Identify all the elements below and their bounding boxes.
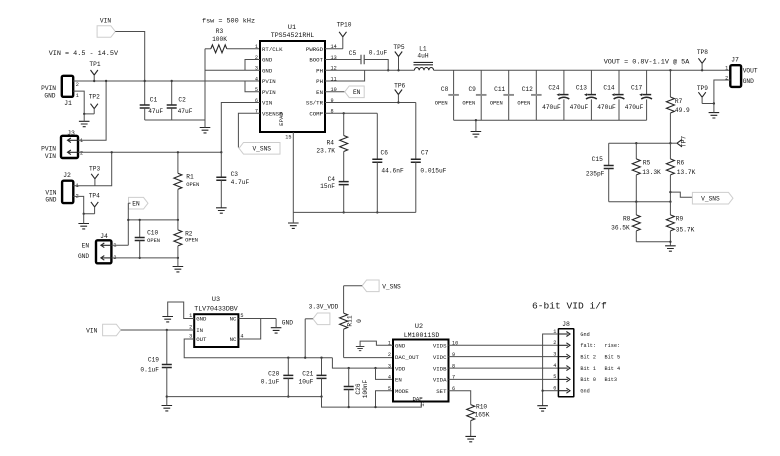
svg-text:R9: R9 [676, 215, 684, 222]
svg-text:TP5: TP5 [393, 44, 404, 51]
wire EPAD stub [292, 132, 294, 212]
capacitor body C12 (open) [531, 94, 542, 96]
wire divider gnd rail [636, 241, 670, 243]
junction 3.3V_VDD junction [304, 357, 306, 359]
svg-text:R1: R1 [186, 174, 194, 181]
svg-text:OPEN: OPEN [490, 101, 503, 107]
wire comp gnd rail [293, 211, 416, 213]
net flag VIN at U3 [103, 324, 121, 336]
svg-text:VOUT: VOUT [743, 68, 758, 75]
capacitor body C14 [612, 93, 625, 99]
wire 3.3V rail [184, 339, 332, 358]
svg-text:U1: U1 [288, 24, 296, 32]
junction C21 bottom junction [320, 395, 322, 397]
wire C17 top [646, 70, 648, 94]
wire U3 pin5 wire [238, 318, 276, 320]
wire C5 to PH [364, 60, 388, 71]
wire R5 bottom lead [635, 175, 637, 202]
wire C6 top [376, 113, 378, 159]
wire C7 top [415, 103, 417, 160]
junction TP6 junction [397, 101, 399, 103]
svg-text:TP9: TP9 [697, 85, 708, 92]
wire V_SNS tap wire [670, 192, 692, 197]
svg-text:2: 2 [80, 151, 83, 157]
wire VOUT bus [434, 69, 731, 71]
svg-text:VIDB: VIDB [433, 365, 447, 372]
svg-text:GND: GND [45, 197, 56, 204]
svg-text:R10: R10 [476, 404, 487, 411]
wire VIDB wire [449, 367, 559, 369]
ground EPAD gnd [288, 223, 299, 228]
wire PWRGD wire [325, 48, 343, 50]
svg-text:36.5K: 36.5K [611, 225, 630, 232]
svg-text:3.3V_VDD: 3.3V_VDD [309, 304, 339, 311]
svg-text:10uF: 10uF [299, 379, 314, 386]
wire TP4 stem [94, 207, 96, 214]
wire J7 gnd stem [713, 104, 715, 113]
svg-text:rise:: rise: [605, 343, 621, 349]
svg-text:GND: GND [196, 316, 207, 323]
svg-text:0.1uF: 0.1uF [369, 49, 388, 56]
wire J1 pin1 to gnd [73, 91, 94, 114]
svg-text:2: 2 [553, 340, 556, 346]
wire VIN line [78, 151, 221, 153]
wire R1 top lead [177, 152, 179, 173]
svg-text:U3: U3 [212, 296, 220, 304]
svg-text:OPEN: OPEN [517, 101, 530, 107]
wire U2 pin5 MODE wire [376, 391, 394, 407]
svg-text:GND: GND [262, 68, 273, 75]
wire TP2 stem [93, 109, 95, 114]
capacitor body C19 [162, 365, 172, 368]
resistor body R2 [174, 230, 182, 246]
junction J3 bus junction [105, 80, 107, 82]
capacitor body C9 (open) [476, 94, 487, 96]
wire divider mid line [609, 201, 671, 203]
capacitor body C15 [604, 166, 614, 169]
testpoint TP10 [339, 32, 346, 37]
wire EPAD gnd stem [292, 212, 294, 223]
svg-text:V_SNS: V_SNS [382, 284, 401, 291]
wire R3 to RT/CLK pin1 [227, 48, 260, 50]
junction J2 gnd junction [83, 213, 85, 215]
junction R1 VIN junction [177, 151, 179, 153]
wire R1 bottom lead [177, 189, 179, 220]
svg-text:EN: EN [395, 377, 402, 384]
wire C19 gnd stem [166, 397, 168, 406]
svg-text:GND: GND [78, 253, 89, 260]
svg-text:COMP: COMP [309, 111, 323, 118]
wire TP8 stem [701, 63, 703, 70]
svg-text:VIN: VIN [45, 153, 56, 160]
svg-text:4: 4 [388, 375, 391, 381]
ground output gnd [471, 132, 482, 137]
svg-text:Bit 0: Bit 0 [580, 377, 596, 383]
svg-text:EPAD: EPAD [278, 112, 285, 126]
junction C2 bus junction [171, 80, 173, 82]
svg-text:R2: R2 [185, 231, 193, 238]
svg-text:C19: C19 [148, 357, 159, 364]
wire C7 bottom [415, 162, 417, 212]
wire BOOT wire [325, 59, 361, 61]
wire R4 to C4 [343, 152, 345, 182]
svg-text:C17: C17 [631, 85, 642, 92]
junction J2 VIN junction [111, 151, 113, 153]
testpoint TP6 [395, 90, 402, 95]
connector box J4 [96, 240, 111, 263]
capacitor body C24 [557, 93, 570, 99]
wire C14 top [618, 70, 620, 94]
svg-text:RT/CLK: RT/CLK [262, 46, 283, 53]
svg-text:165K: 165K [475, 412, 490, 419]
junction V_SNS tap junction [669, 191, 671, 193]
svg-text:100K: 100K [212, 36, 227, 43]
svg-text:OUT: OUT [196, 336, 207, 343]
svg-text:TP4: TP4 [89, 193, 100, 200]
svg-text:LM10011SD: LM10011SD [404, 332, 440, 339]
wire R8 top lead [635, 202, 637, 215]
svg-text:R6: R6 [677, 160, 685, 167]
wire J1 gnd stem [83, 114, 85, 121]
net flag VIN [97, 26, 115, 38]
svg-text:J2: J2 [63, 172, 71, 179]
svg-text:2: 2 [76, 82, 79, 88]
wire input gnd stem [204, 120, 206, 128]
svg-text:13.3K: 13.3K [642, 169, 661, 176]
junction C26 junction [348, 367, 350, 369]
junction C19 junction [166, 329, 168, 331]
svg-text:TP7: TP7 [681, 136, 688, 147]
junction C19 gnd junction [166, 395, 168, 397]
junction C4 rail junction [343, 211, 345, 213]
wire R2 top lead [177, 220, 179, 230]
ground U3 pin1 gnd [162, 317, 173, 322]
wire U3 pin1 gnd wire [168, 302, 195, 319]
svg-text:C9: C9 [468, 86, 476, 93]
wire C13 top [590, 70, 592, 94]
testpoint TP4 [91, 202, 98, 207]
svg-text:EN: EN [132, 200, 140, 207]
svg-text:5: 5 [388, 386, 391, 392]
wire SS/TR line [325, 102, 416, 104]
capacitor body C1 [140, 105, 150, 108]
ground input cap gnd [200, 128, 211, 133]
svg-text:C21: C21 [302, 370, 313, 377]
svg-text:C5: C5 [349, 50, 357, 57]
wire TP7 stem [670, 142, 677, 144]
wire C21 bottom [321, 379, 323, 397]
svg-text:15nF: 15nF [320, 183, 335, 190]
svg-text:EN: EN [82, 243, 90, 250]
resistor body R7 [666, 97, 674, 113]
svg-text:47uF: 47uF [148, 108, 163, 115]
svg-text:IN: IN [196, 327, 203, 334]
wire R9 bottom lead [669, 231, 671, 242]
capacitor body C10 [135, 238, 145, 241]
testpoint TP1 [91, 70, 98, 75]
svg-text:NC: NC [230, 316, 237, 323]
resistor body R3 [211, 45, 227, 53]
connector box J8 [558, 329, 573, 397]
svg-text:TLV70433DBV: TLV70433DBV [194, 306, 238, 313]
net flag V_SNS at U1 pin7 [239, 143, 280, 155]
svg-text:R3: R3 [216, 28, 224, 35]
svg-text:OPEN: OPEN [462, 101, 475, 107]
wire TP10 stem [342, 37, 344, 49]
svg-text:VDD: VDD [395, 365, 406, 372]
svg-text:GND: GND [743, 78, 754, 85]
resistor body R10 [467, 405, 475, 421]
capacitor body C13 [584, 93, 597, 99]
junction divider gnd junction [669, 241, 671, 243]
wire R7 bottom lead [669, 113, 671, 143]
capacitor body C11 (open) [503, 94, 514, 96]
svg-text:VIN: VIN [45, 190, 56, 197]
wire PH pin12 wire [325, 69, 365, 71]
junction VIN line end junction [220, 151, 222, 153]
wire output cap gnd rail [454, 119, 647, 121]
ground R10 gnd [465, 436, 476, 441]
junction C10 top junction [139, 219, 141, 221]
junction C26 bottom junction [348, 406, 350, 408]
junction C10 bottom junction [139, 257, 141, 259]
capacitor body C20 [283, 375, 293, 378]
svg-text:J7: J7 [731, 57, 739, 64]
wire EN flag tie [128, 202, 130, 204]
connector pin arrow J8 pin1 [559, 332, 570, 337]
svg-text:0: 0 [356, 319, 363, 323]
svg-text:R5: R5 [643, 160, 651, 167]
svg-text:OPEN: OPEN [435, 101, 448, 107]
svg-text:TP2: TP2 [89, 94, 100, 101]
wire PH line to L1 [365, 69, 415, 71]
connector box J1 [62, 76, 73, 97]
svg-text:GND: GND [262, 57, 273, 64]
ground C3 gnd [216, 208, 227, 213]
resistor body R9 [666, 215, 674, 231]
wire U1 pin5 bracket [245, 81, 260, 92]
svg-text:TP6: TP6 [394, 83, 405, 90]
svg-text:44.6nF: 44.6nF [381, 167, 404, 174]
wire divider top line [609, 142, 671, 144]
svg-text:C2: C2 [178, 97, 186, 104]
svg-text:0.1uF: 0.1uF [140, 367, 159, 374]
connector pin arrow J3 pin2 [68, 150, 78, 155]
connector pin arrow J8 pin4 [559, 366, 570, 371]
svg-text:470uF: 470uF [597, 104, 616, 111]
wire C13 bottom [590, 99, 592, 120]
wire 3.3V rail step to U2 VDD [332, 358, 393, 368]
testpoint TP2 [91, 104, 98, 109]
connector pin arrow J8 pin6 [559, 388, 570, 393]
svg-text:1: 1 [255, 44, 258, 50]
svg-text:3: 3 [388, 363, 391, 369]
svg-text:BOOT: BOOT [309, 57, 323, 64]
wire U1 pin6 VIN [221, 103, 260, 153]
wire C15 bottom [608, 169, 610, 202]
svg-text:2: 2 [388, 352, 391, 358]
svg-text:R11: R11 [347, 315, 354, 326]
svg-text:C10: C10 [147, 230, 158, 237]
svg-text:C8: C8 [441, 86, 449, 93]
svg-text:Bit 2: Bit 2 [580, 354, 596, 360]
wire U1 pin3 gnd line [205, 69, 260, 71]
wire R6 top lead [669, 143, 671, 159]
svg-text:VIN: VIN [86, 327, 97, 334]
capacitor body C3 [216, 177, 226, 180]
svg-text:C6: C6 [381, 150, 389, 157]
wire C21 top [321, 358, 323, 376]
svg-text:V_SNS: V_SNS [701, 195, 720, 202]
wire C19 bottom [166, 368, 168, 397]
wire R11 bottom lead [343, 329, 345, 358]
svg-text:PH: PH [316, 78, 323, 85]
wire bottom gnd rail A [167, 396, 322, 398]
wire C26 top [348, 368, 350, 386]
connector pin arrow J3 pin1 [68, 138, 78, 143]
junction R7 divider junction [669, 142, 671, 144]
ground R2 gnd [173, 267, 184, 272]
svg-text:TP3: TP3 [89, 166, 100, 173]
wire C1 top [144, 81, 146, 105]
svg-text:Bit 4: Bit 4 [605, 366, 621, 372]
svg-text:PVIN: PVIN [41, 146, 56, 153]
junction R6 R9 junction [669, 201, 671, 203]
svg-text:VIN: VIN [262, 100, 272, 107]
wire C26 bottom [348, 390, 350, 408]
wire R2 bottom lead [177, 246, 179, 258]
svg-text:falt:: falt: [580, 343, 596, 349]
svg-text:100nF: 100nF [362, 379, 369, 398]
connector pin arrow J8 pin5 [559, 377, 570, 382]
wire TP5 stem [398, 57, 400, 71]
junction C20 bottom junction [287, 395, 289, 397]
svg-text:TP8: TP8 [697, 49, 708, 56]
svg-text:13.7K: 13.7K [677, 169, 696, 176]
svg-text:VIDS: VIDS [433, 343, 447, 350]
svg-text:GND: GND [44, 92, 55, 99]
wire input cap gnd rail [145, 119, 205, 121]
svg-text:R4: R4 [327, 140, 335, 147]
svg-text:C7: C7 [421, 150, 429, 157]
wire C9 wire [480, 70, 482, 120]
junction R7 VOUT junction [669, 69, 671, 71]
wire bottom gnd rail B [322, 397, 422, 408]
junction R2 bottom junction [177, 257, 179, 259]
svg-text:VIN = 4.5 - 14.5V: VIN = 4.5 - 14.5V [49, 50, 119, 58]
svg-text:DAC_OUT: DAC_OUT [395, 354, 419, 361]
svg-text:4uH: 4uH [417, 53, 428, 60]
capacitor body C5 [361, 55, 364, 65]
svg-text:EN: EN [316, 89, 323, 96]
junction J1 gnd junction [83, 113, 85, 115]
wire C6 bottom [376, 162, 378, 212]
svg-text:fsw = 500 kHz: fsw = 500 kHz [202, 18, 255, 26]
svg-text:4.7uF: 4.7uF [231, 179, 250, 186]
junction TP5 junction [397, 69, 399, 71]
wire TP1 stem [93, 75, 95, 81]
wire COMP line [325, 112, 377, 114]
wire J2 gnd stem [83, 214, 85, 224]
wire C2 top [171, 81, 173, 105]
svg-text:2: 2 [725, 76, 728, 82]
resistor body R1 [174, 173, 182, 189]
svg-text:C3: C3 [231, 171, 239, 178]
svg-text:TPS54521RHL: TPS54521RHL [271, 32, 315, 39]
svg-text:C13: C13 [576, 85, 587, 92]
svg-text:C4: C4 [328, 176, 336, 183]
ground J2 gnd [78, 224, 89, 229]
connector pin arrow J4 pin2 [101, 256, 111, 261]
svg-text:470uF: 470uF [542, 104, 561, 111]
svg-text:6-bit VID i/f: 6-bit VID i/f [532, 301, 607, 312]
wire V_SNS to R11 wire [344, 285, 363, 287]
svg-text:1: 1 [76, 93, 79, 99]
svg-text:C14: C14 [603, 85, 614, 92]
capacitor body C4 [339, 182, 349, 185]
wire R3 gnd vertical [204, 49, 206, 120]
svg-text:470uF: 470uF [625, 104, 644, 111]
testpoint TP5 [395, 52, 402, 57]
ground U2 pin1 gnd [356, 346, 364, 350]
wire C20 bottom [287, 379, 289, 397]
wire VIDS wire [449, 344, 559, 346]
svg-text:Gnd: Gnd [580, 389, 589, 395]
wire C8 wire [453, 70, 455, 120]
svg-text:J1: J1 [64, 100, 72, 107]
svg-text:TP10: TP10 [337, 22, 352, 29]
svg-text:3: 3 [553, 351, 556, 357]
wire U2 pin1 gnd wire [360, 341, 393, 346]
junction TP8 junction [701, 69, 703, 71]
wire C24 bottom [563, 99, 565, 120]
junction R5 top junction [635, 142, 637, 144]
capacitor body C17 [639, 93, 652, 99]
wire VIN to U3 IN [121, 329, 194, 331]
junction R4 COMP junction [343, 112, 345, 114]
junction J8 gnd junction [541, 390, 543, 392]
svg-text:V_SNS: V_SNS [252, 146, 271, 153]
wire C10 top [139, 220, 141, 238]
wire divider gnd stem [669, 242, 671, 246]
wire VIDA wire [449, 378, 559, 380]
svg-text:PVIN: PVIN [262, 89, 276, 96]
capacitor body C7 [411, 159, 421, 162]
wire TP6 stem [397, 95, 399, 103]
wire C10 bottom [139, 241, 141, 258]
svg-text:PVIN: PVIN [262, 78, 276, 85]
wire C17 bottom [646, 99, 648, 120]
wire J3 pin1 to bus [78, 81, 106, 140]
ground C19 gnd [162, 406, 173, 411]
inductor body L1 [414, 62, 434, 70]
wire PH pin11 bracket [325, 70, 365, 81]
svg-text:L1: L1 [419, 46, 427, 53]
svg-text:R8: R8 [623, 215, 631, 222]
svg-text:47uF: 47uF [178, 108, 193, 115]
connector pin arrow J8 pin2 [559, 343, 570, 348]
wire R9 top lead [669, 202, 671, 215]
resistor body R4 [340, 136, 348, 152]
wire DAC_OUT wire [344, 357, 393, 359]
junction TP1 bus [93, 80, 95, 82]
IC box U3 [194, 314, 238, 347]
wire R2 gnd stem [177, 258, 179, 267]
capacitor body C6 [372, 159, 382, 162]
wire U2 pin4 EN bracket [376, 368, 394, 379]
svg-text:VIN: VIN [100, 18, 111, 25]
net flag V_SNS at R11 [362, 280, 379, 292]
